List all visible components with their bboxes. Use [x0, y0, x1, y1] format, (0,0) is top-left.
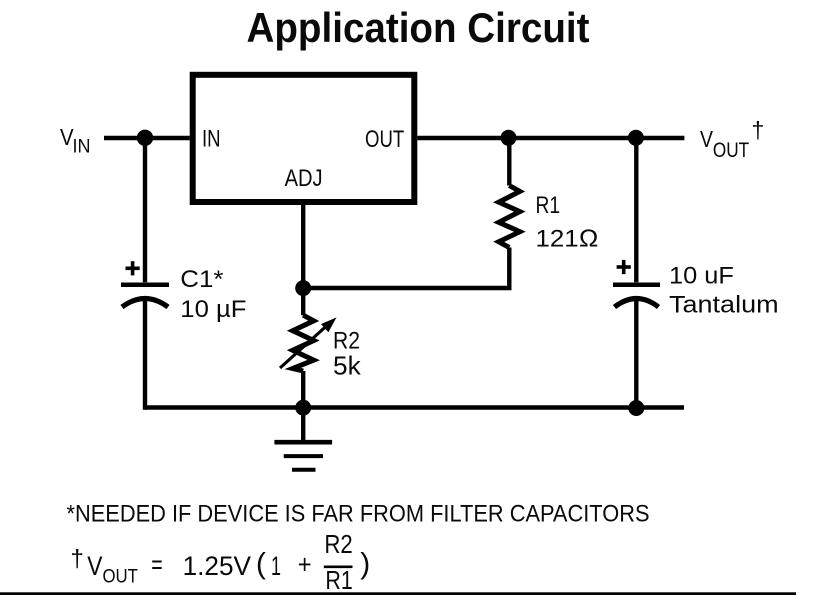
wire C2 bottom lead [634, 297, 638, 410]
capacitor C2 curved plate [615, 299, 659, 308]
wire ADJ lead [301, 202, 305, 288]
svg-text:*NEEDED IF DEVICE IS FAR FROM: *NEEDED IF DEVICE IS FAR FROM FILTER CAP… [67, 500, 650, 527]
ground bar 2 [284, 454, 323, 458]
regulator box U1 [193, 75, 415, 202]
svg-text:1: 1 [271, 551, 281, 581]
wire R2 top lead [301, 288, 305, 315]
svg-text:(: ( [256, 547, 266, 580]
svg-text:): ) [360, 547, 370, 580]
svg-text:IN: IN [73, 137, 91, 158]
capacitor C2 top plate [613, 282, 660, 287]
ground bar 3 [292, 468, 316, 472]
wire C1 top lead [143, 136, 147, 282]
svg-text:1.25V: 1.25V [183, 551, 252, 581]
svg-text:10 uF: 10 uF [669, 263, 734, 290]
svg-text:R1: R1 [325, 567, 352, 595]
svg-text:IN: IN [202, 126, 221, 153]
capacitor C1 plus sign [126, 266, 140, 270]
wire R2 bottom lead [301, 371, 305, 409]
wire R1 bottom lead to ADJ [303, 248, 509, 289]
capacitor C1 curved plate [122, 299, 168, 308]
svg-text:=: = [151, 549, 162, 579]
svg-text:Tantalum: Tantalum [669, 292, 779, 319]
wire R1 top lead [507, 138, 511, 186]
svg-text:OUT: OUT [365, 126, 404, 153]
svg-text:10 µF: 10 µF [180, 296, 246, 323]
wire C1 bottom lead [143, 297, 147, 410]
wire VIN to box IN [104, 136, 190, 140]
wire C2 top lead [634, 136, 638, 282]
bottom rule [0, 592, 796, 595]
svg-text:V: V [700, 126, 714, 152]
R2 arrowhead [321, 317, 337, 332]
svg-text:OUT: OUT [103, 566, 139, 587]
junction OUT-R1 node [501, 130, 517, 146]
svg-text:OUT: OUT [713, 139, 749, 162]
svg-text:R1: R1 [536, 192, 561, 219]
svg-text:V: V [87, 551, 102, 581]
junction ADJ node [295, 280, 311, 296]
wire bottom rail [145, 405, 684, 409]
svg-text:†: † [752, 117, 765, 143]
resistor R1 [499, 186, 520, 248]
junction bottom-right node [628, 400, 644, 416]
svg-text:121Ω: 121Ω [536, 225, 599, 252]
formula fraction bar [324, 565, 353, 568]
junction bottom-left node [295, 400, 311, 416]
capacitor C1 top plate [121, 282, 169, 287]
junction VIN node [137, 130, 153, 146]
capacitor C2 plus sign [617, 265, 631, 269]
svg-text:+: + [298, 550, 312, 580]
resistor R2 (variable) [293, 315, 314, 371]
wire ground lead [301, 405, 305, 442]
junction VOUT node [628, 130, 644, 146]
svg-text:C1*: C1* [180, 266, 224, 293]
svg-text:ADJ: ADJ [285, 165, 323, 192]
svg-text:Application Circuit: Application Circuit [247, 4, 590, 51]
wire OUT to VOUT [417, 136, 684, 140]
ground bar 1 [274, 440, 332, 445]
svg-text:†: † [71, 546, 84, 573]
svg-text:R2: R2 [324, 531, 352, 559]
svg-text:5k: 5k [333, 350, 362, 380]
R2 arrow shaft [280, 326, 327, 369]
